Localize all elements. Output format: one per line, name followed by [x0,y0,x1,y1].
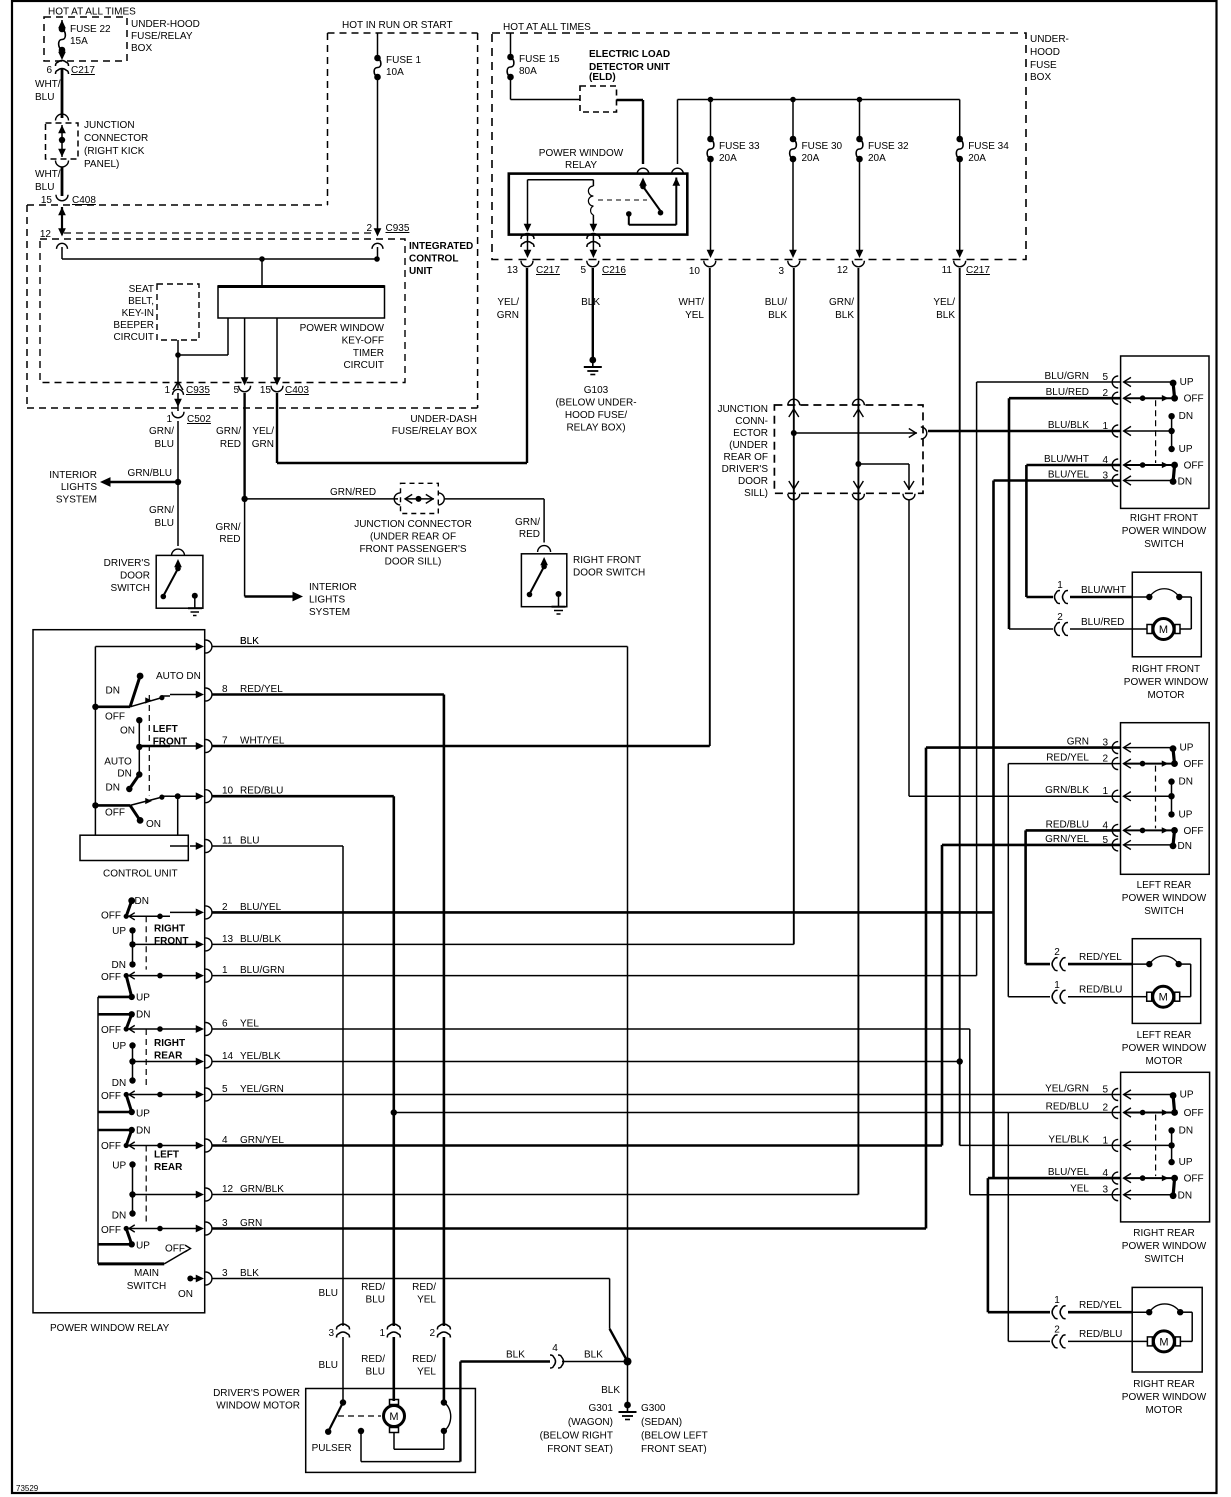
svg-text:C217: C217 [966,265,990,276]
svg-text:1: 1 [164,385,170,396]
right rear motor connectors [1052,1295,1132,1348]
svg-text:BLU: BLU [319,1360,338,1371]
svg-text:BLU/BLK: BLU/BLK [240,934,281,945]
wire GRN master pin 3 to left rear switch pin 3 [212,748,1121,1229]
svg-text:YEL: YEL [417,1367,436,1378]
svg-text:G300: G300 [641,1403,666,1414]
svg-text:BLU/YEL: BLU/YEL [1048,1167,1090,1178]
label GRN/BLU [128,468,172,479]
under-hood fuse box (dashed) [492,33,1026,260]
svg-text:DN: DN [135,896,149,907]
master switch pin top BLK row terminal [170,636,259,653]
svg-text:RIGHT: RIGHT [154,1038,185,1049]
svg-text:3: 3 [328,1328,334,1339]
interior lights system arrow (left) [100,477,181,487]
svg-text:OFF: OFF [101,1025,121,1036]
svg-text:OFF: OFF [101,1091,121,1102]
svg-text:FUSE 22: FUSE 22 [70,24,111,35]
label RIGHT FRONT POWER WINDOW MOTOR [1124,664,1209,701]
svg-text:ON: ON [146,819,161,830]
left front dashed divider [148,695,150,795]
label INTERIOR LIGHTS SYSTEM (left) [49,470,97,506]
label UNDER-DASH FUSE/RELAY BOX [392,414,478,437]
svg-text:20A: 20A [719,153,737,164]
wire BLU/WHT right front pin 4 to motor pin 1 [1026,465,1120,597]
fuse FUSE34 20A [956,100,1009,259]
interior lights system arrow (middle) [245,592,303,602]
svg-text:RELAY BOX): RELAY BOX) [566,423,625,434]
master switch pin 1 BLU/GRN row terminal [170,965,284,982]
svg-text:15: 15 [260,385,272,396]
svg-text:YEL/GRN: YEL/GRN [240,1084,284,1095]
connectors left rear switch pins [1112,742,1118,851]
master switch pin 7 WHT/YEL row terminal [170,736,285,753]
wire GRN/RED to junction connector [245,487,398,499]
svg-text:FUSE 30: FUSE 30 [802,141,843,152]
svg-text:INTEGRATED: INTEGRATED [409,241,473,252]
svg-text:HOT AT ALL TIMES: HOT AT ALL TIMES [48,7,136,18]
master switch pin 3 BLK row terminal [193,1268,259,1285]
svg-text:YEL/BLK: YEL/BLK [1048,1134,1089,1145]
svg-text:73529: 73529 [16,1484,39,1493]
wire GRN/RED junction dot [216,496,248,597]
wire BLK to ground junction [460,1343,631,1368]
svg-text:REAR: REAR [154,1162,183,1173]
right front power window switch [1121,356,1209,508]
connector C217 pin 6 [46,61,95,77]
svg-text:20A: 20A [802,153,820,164]
wires timer box to C403 [241,318,281,386]
svg-text:UP: UP [136,1109,150,1120]
svg-text:UNDER-DASH: UNDER-DASH [410,414,477,425]
junction sill GRN/BLK pass-through [852,399,864,500]
svg-text:1: 1 [1102,1135,1108,1146]
svg-text:BOX: BOX [1030,72,1051,83]
svg-text:5: 5 [1102,1085,1108,1096]
wire YEL master pin 6 to right rear switch pin 3 [212,1029,1121,1195]
connector C502 pin 1 [166,393,211,425]
svg-text:C216: C216 [602,265,626,276]
svg-text:OFF: OFF [101,1141,121,1152]
svg-text:RIGHT FRONT: RIGHT FRONT [1130,513,1198,524]
svg-text:SWITCH: SWITCH [111,583,150,594]
under-dash fuse/relay box (dashed) [27,205,478,408]
svg-text:OFF: OFF [105,712,125,723]
svg-text:CONTROL UNIT: CONTROL UNIT [103,869,178,880]
driver's door switch box [156,555,203,608]
svg-text:CONNECTOR: CONNECTOR [84,133,148,144]
svg-text:BLU: BLU [155,439,174,450]
svg-text:YEL/GRN: YEL/GRN [1045,1084,1089,1095]
svg-text:POWER WINDOW: POWER WINDOW [1122,1043,1207,1054]
svg-text:RED/: RED/ [412,1354,436,1365]
svg-text:UP: UP [112,1161,126,1172]
svg-text:LIGHTS: LIGHTS [309,595,345,606]
driver motor BLK sense wire [358,1362,461,1462]
wire YEL/GRN master pin 5 to right rear switch pin 5 [212,1094,1121,1096]
svg-text:RIGHT REAR: RIGHT REAR [1133,1379,1195,1390]
wire RED/YEL left rear pin 2 to motor pin 1 [1008,764,1120,997]
svg-text:M: M [1159,624,1168,636]
label RIGHT REAR POWER WINDOW MOTOR [1122,1379,1207,1416]
svg-text:GRN/: GRN/ [149,505,174,516]
svg-text:BLK: BLK [584,1350,603,1361]
label DRIVER'S POWER WINDOW MOTOR [213,1388,300,1412]
svg-text:SYSTEM: SYSTEM [56,495,97,506]
connectors right rear switch pins [1112,1089,1118,1201]
fuse FUSE30 20A [789,100,842,259]
svg-text:OFF: OFF [1184,461,1204,472]
svg-text:YEL: YEL [685,310,704,321]
labels ON / LEFT FRONT / AUTO DN / DN [104,724,187,794]
svg-text:CIRCUIT: CIRCUIT [113,332,154,343]
svg-text:OFF: OFF [1184,826,1204,837]
svg-text:DN: DN [1178,1191,1192,1202]
svg-text:12: 12 [222,1184,234,1195]
svg-text:FUSE/RELAY: FUSE/RELAY [131,31,193,42]
svg-text:FRONT SEAT): FRONT SEAT) [547,1444,613,1455]
wire RED/BLU master pin 10 to driver motor pin 1 [212,796,397,1326]
svg-text:OFF: OFF [165,1244,185,1255]
svg-text:2: 2 [1054,947,1060,958]
svg-text:OFF: OFF [101,972,121,983]
svg-text:FRONT: FRONT [153,737,187,748]
master switch pin 8 RED/YEL row terminal [170,684,283,701]
svg-text:11: 11 [222,836,233,847]
relay internal dashed link [598,199,647,201]
connectors right front switch pins [1112,376,1118,487]
left rear switch section (master) [98,1127,170,1248]
left rear motor connectors [1052,947,1132,1003]
svg-text:G103: G103 [584,385,609,396]
fuse supply bus [678,97,960,164]
labels right front switch wires [1044,371,1108,482]
svg-text:GRN/: GRN/ [216,522,241,533]
label POWER WINDOW KEY-OFF TIMER CIRCUIT [300,323,385,371]
wire GRN/BLU from C502 [149,421,178,479]
svg-text:OFF: OFF [101,1225,121,1236]
power window key-off timer circuit box [218,286,385,318]
svg-text:RED/: RED/ [361,1354,385,1365]
junction sill GRN/BLK branch down [858,464,915,500]
svg-text:1: 1 [1102,786,1108,797]
svg-text:YEL/: YEL/ [497,297,519,308]
master switch pin 3 GRN row terminal [170,1218,262,1235]
svg-text:GRN: GRN [497,310,519,321]
label G103 (BELOW UNDER-HOOD FUSE/RELAY BOX) [555,385,636,434]
svg-text:(RIGHT KICK: (RIGHT KICK [84,146,145,157]
svg-text:1: 1 [166,414,172,425]
svg-text:M: M [1159,992,1168,1004]
svg-text:DRIVER'S POWER: DRIVER'S POWER [213,1388,300,1399]
svg-text:BLU: BLU [319,1288,338,1299]
svg-text:KEY-OFF: KEY-OFF [342,336,384,347]
svg-text:FRONT: FRONT [154,936,188,947]
svg-text:DN: DN [1179,1126,1193,1137]
svg-text:LEFT: LEFT [153,724,178,735]
label G301 (WAGON) (BELOW RIGHT FRONT SEAT) [540,1403,614,1455]
label RIGHT REAR POWER WINDOW SWITCH [1122,1228,1207,1265]
right rear power window switch [1121,1072,1210,1222]
svg-text:6: 6 [46,65,52,76]
svg-text:UNIT: UNIT [409,266,432,277]
svg-text:RED/YEL: RED/YEL [1079,952,1122,963]
wire BLU/YEL right rear pin 4 to motor pin 1 [988,1178,1121,1312]
power window master switch box [33,630,205,1313]
under-hood pin connectors row [521,261,966,267]
svg-text:BELT,: BELT, [128,296,154,307]
wire YEL/BLK master pin 14 to column [212,1058,963,1064]
svg-text:FUSE 32: FUSE 32 [868,141,909,152]
svg-text:LIGHTS: LIGHTS [61,482,97,493]
control unit box [80,835,188,860]
svg-text:3: 3 [1102,738,1108,749]
svg-text:PULSER: PULSER [312,1443,352,1454]
svg-text:YEL/: YEL/ [252,426,274,437]
svg-text:RIGHT: RIGHT [154,924,185,935]
svg-text:RED: RED [519,529,540,540]
svg-text:BOX: BOX [131,43,152,54]
svg-text:RED: RED [220,439,241,450]
svg-text:OFF: OFF [1184,394,1204,405]
relay terminals connectors [637,168,684,174]
svg-text:OFF: OFF [1184,1174,1204,1185]
wire BLK pin5 to ground G103 [584,268,602,375]
left front ON chain [136,717,170,778]
sheet number 73529 [16,1484,39,1493]
svg-text:FUSE 1: FUSE 1 [386,55,421,66]
svg-text:KEY-IN: KEY-IN [122,308,154,319]
fuse F1 10A [374,33,421,80]
svg-text:SYSTEM: SYSTEM [309,607,350,618]
svg-text:RED/BLU: RED/BLU [1079,1329,1122,1340]
svg-text:HOOD: HOOD [1030,47,1060,58]
svg-text:HOOD FUSE/: HOOD FUSE/ [565,410,627,421]
svg-text:M: M [389,1411,398,1423]
master switch pin 14 YEL/BLK row terminal [170,1051,281,1068]
svg-text:SWITCH: SWITCH [1144,539,1183,550]
svg-text:BLU: BLU [240,836,259,847]
svg-text:FRONT SEAT): FRONT SEAT) [641,1444,707,1455]
svg-text:BLU/RED: BLU/RED [1046,387,1089,398]
svg-text:DN: DN [112,1078,126,1089]
svg-text:(UNDER: (UNDER [729,440,768,451]
svg-text:BLU/: BLU/ [765,297,787,308]
svg-text:BLU: BLU [35,92,54,103]
seat belt key-in beeper circuit box (dashed) [157,284,199,340]
svg-text:OFF: OFF [105,808,125,819]
main switch lever [98,1245,193,1281]
svg-text:BLK: BLK [601,1385,620,1396]
svg-text:JUNCTION CONNECTOR: JUNCTION CONNECTOR [354,519,472,530]
label CONTROL UNIT [103,869,178,880]
left front auto-dn lever [92,673,170,710]
svg-text:OFF: OFF [1184,759,1204,770]
svg-text:1: 1 [1054,1295,1060,1306]
svg-text:10A: 10A [386,67,404,78]
svg-text:POWER WINDOW: POWER WINDOW [1122,1392,1207,1403]
svg-text:10: 10 [689,266,701,277]
svg-text:GRN/: GRN/ [149,426,174,437]
svg-text:WHT/: WHT/ [35,79,61,90]
svg-text:DOOR SILL): DOOR SILL) [385,557,442,568]
svg-text:DOOR: DOOR [120,571,150,582]
labels OFF / ON (left front down-lever) [105,808,161,831]
svg-text:(BELOW LEFT: (BELOW LEFT [641,1431,708,1442]
wire fuse 1 to C935 pin 2 [366,77,409,259]
junction connector (under rear of front passenger's door sill) [394,483,444,513]
driver's power window motor box [306,1389,476,1473]
wire YEL/GRN pin13 down [526,268,528,463]
svg-text:DN: DN [117,769,131,780]
svg-text:13: 13 [507,265,519,276]
svg-text:FUSE/RELAY BOX: FUSE/RELAY BOX [392,426,478,437]
svg-text:BLK: BLK [768,310,787,321]
wire WHT/YEL master pin 7 to under-hood pin 10 [212,268,710,746]
svg-text:DN: DN [1178,841,1192,852]
svg-text:GRN/BLK: GRN/BLK [1045,785,1089,796]
svg-text:PANEL): PANEL) [84,159,119,170]
svg-text:DN: DN [1179,411,1193,422]
wire BLU/RED right front pin 2 to motor pin 2 [1009,398,1121,629]
svg-text:C935: C935 [186,385,210,396]
svg-text:1: 1 [1057,580,1063,591]
master switch pin 10 RED/BLU row terminal [170,786,283,803]
svg-text:POWER WINDOW: POWER WINDOW [1122,893,1207,904]
svg-text:5: 5 [222,1084,228,1095]
driver motor pulser switch [312,1399,352,1454]
svg-text:DN: DN [112,1211,126,1222]
svg-text:ON: ON [178,1289,193,1300]
wire GRN/BLU to driver's door switch [149,482,185,556]
ground G301 G300 [619,1402,637,1420]
svg-text:DRIVER'S: DRIVER'S [104,558,151,569]
svg-text:5: 5 [580,265,586,276]
svg-text:DOOR: DOOR [738,476,768,487]
svg-text:AUTO DN: AUTO DN [156,671,201,682]
svg-text:DOOR SWITCH: DOOR SWITCH [573,568,645,579]
wire fuse15 to ELD [511,77,581,100]
wire WHT/BLU lower [35,167,62,196]
svg-text:1: 1 [1054,980,1060,991]
svg-text:RED/: RED/ [412,1282,436,1293]
wire BLU/GRN master pin 1 to right front switch pin 5 [212,382,1121,976]
junction connector (right kick panel) [46,114,79,167]
label LEFT REAR POWER WINDOW MOTOR [1122,1030,1207,1067]
svg-text:DRIVER'S: DRIVER'S [722,464,769,475]
label DRIVER'S DOOR SWITCH [104,558,151,594]
relay output wires to connectors [521,234,600,259]
driver motor commutator arc [394,1399,451,1449]
svg-text:RED/BLU: RED/BLU [1046,819,1089,830]
svg-text:HOT AT ALL TIMES: HOT AT ALL TIMES [503,22,591,33]
hot in run or start dashed box outline [328,33,478,408]
svg-text:UP: UP [136,1241,150,1252]
svg-text:TIMER: TIMER [353,348,384,359]
svg-text:DN: DN [106,686,120,697]
svg-text:14: 14 [222,1051,234,1062]
svg-text:1: 1 [222,965,228,976]
svg-text:FUSE 34: FUSE 34 [968,141,1009,152]
svg-text:C217: C217 [536,265,560,276]
labels right rear section [101,1010,185,1120]
fuse F22 15A [58,20,111,60]
svg-text:ELECTRIC LOAD: ELECTRIC LOAD [589,49,670,60]
power window relay box [509,174,688,235]
right front door switch box [521,554,566,607]
dashed line above ICU [64,232,374,234]
svg-text:FUSE: FUSE [1030,60,1057,71]
svg-text:(UNDER REAR OF: (UNDER REAR OF [370,532,456,543]
svg-text:BLU/WHT: BLU/WHT [1081,585,1126,596]
driver motor dashed link [338,1415,381,1417]
svg-text:ON: ON [120,726,135,737]
label POWER WINDOW RELAY (top) [539,148,624,171]
svg-text:CONN-: CONN- [735,416,768,427]
svg-text:BLU: BLU [155,518,174,529]
wire BLK to ground G301 G300 [601,1362,627,1406]
svg-text:C935: C935 [386,223,410,234]
svg-text:DN: DN [112,960,126,971]
wire YEL/BLK under-hood pin 11 to right rear switch pin 1 [960,268,1121,1145]
wire BLK master main switch to ground node [212,1279,628,1362]
svg-text:5: 5 [233,385,239,396]
svg-text:BLK: BLK [581,297,600,308]
junction sill BLU/BLK branch to right front switch [794,427,1121,439]
svg-text:POWER WINDOW: POWER WINDOW [539,148,624,159]
svg-text:RED/YEL: RED/YEL [1046,753,1089,764]
svg-text:LEFT: LEFT [154,1150,179,1161]
wire BLU/YEL column to right rear switch pin 4 [992,481,995,1179]
svg-text:G301: G301 [589,1403,614,1414]
svg-text:C502: C502 [187,414,211,425]
svg-text:GRN/BLU: GRN/BLU [128,468,172,479]
svg-text:WINDOW MOTOR: WINDOW MOTOR [216,1401,300,1412]
svg-text:YEL: YEL [240,1019,259,1030]
svg-text:BLU/YEL: BLU/YEL [1048,470,1090,481]
right rear switch section (master) [98,1011,170,1115]
svg-text:BLU/BLK: BLU/BLK [1048,420,1089,431]
labels AUTO DN / DN / OFF (left front up-lever) [105,671,201,723]
svg-text:(WAGON): (WAGON) [568,1417,613,1428]
svg-text:UP: UP [1179,444,1193,455]
label HOT AT ALL TIMES (left) [48,7,136,18]
svg-text:80A: 80A [519,66,537,77]
left rear power window motor [1132,939,1200,1024]
wire GRN/BLK master pin 12 to under-hood pin 12 [212,268,858,1195]
label SEAT BELT KEY-IN BEEPER CIRCUIT [113,284,154,343]
fuse FUSE33 20A [707,100,760,259]
svg-text:OFF: OFF [1184,1108,1204,1119]
svg-text:RIGHT FRONT: RIGHT FRONT [573,555,641,566]
labels MAIN SWITCH / OFF / ON [127,1244,193,1301]
label JUNCTION CONNECTOR (RIGHT KICK PANEL) [84,120,148,170]
svg-text:GRN/: GRN/ [216,426,241,437]
svg-text:GRN/: GRN/ [829,297,854,308]
svg-text:YEL: YEL [417,1295,436,1306]
labels BLU RED/BLU RED/YEL above connectors [319,1282,437,1306]
svg-text:BEEPER: BEEPER [113,320,154,331]
label ELECTRIC LOAD DETECTOR UNIT (ELD) [589,49,670,83]
svg-text:WHT/: WHT/ [678,297,704,308]
svg-text:2: 2 [1054,1325,1060,1336]
svg-text:BLU/RED: BLU/RED [1081,617,1124,628]
wire GRN/RED to right front door switch [445,499,551,552]
integrated control unit box (dashed) [40,239,405,383]
connector C403 pins 5 and 15 [233,385,309,396]
svg-text:RIGHT FRONT: RIGHT FRONT [1132,664,1200,675]
svg-text:REAR: REAR [154,1051,183,1062]
